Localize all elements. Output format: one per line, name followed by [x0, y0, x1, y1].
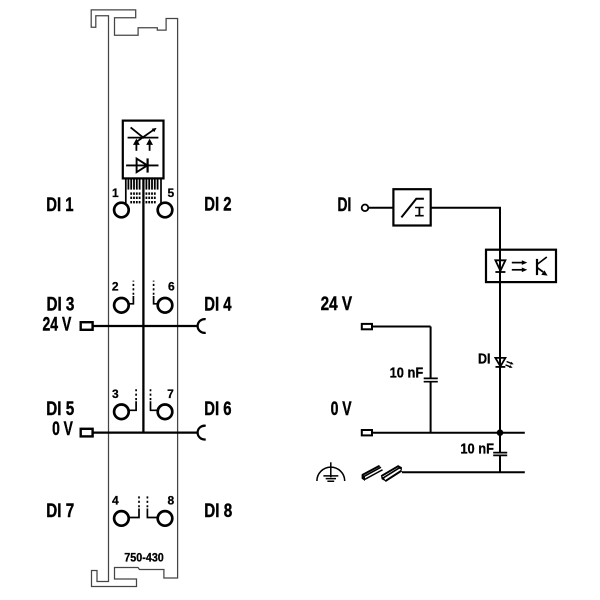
svg-text:DI 2: DI 2 [204, 195, 231, 216]
svg-text:8: 8 [167, 494, 174, 508]
svg-text:DI 5: DI 5 [46, 399, 74, 420]
svg-text:10 nF: 10 nF [460, 440, 494, 457]
svg-text:DI 7: DI 7 [46, 501, 74, 522]
svg-text:4: 4 [112, 494, 119, 508]
svg-text:3: 3 [112, 387, 119, 401]
svg-text:DI 1: DI 1 [46, 195, 74, 216]
svg-text:6: 6 [168, 280, 175, 294]
svg-text:DI: DI [338, 195, 352, 216]
svg-text:24 V: 24 V [43, 315, 72, 336]
svg-text:DI 6: DI 6 [204, 399, 231, 420]
svg-text:DI 4: DI 4 [204, 295, 232, 316]
svg-text:2: 2 [112, 280, 119, 294]
svg-text:24 V: 24 V [321, 294, 353, 315]
svg-text:5: 5 [167, 186, 174, 200]
svg-text:7: 7 [167, 387, 174, 401]
svg-text:1: 1 [112, 186, 119, 200]
svg-text:750-430: 750-430 [124, 551, 164, 565]
svg-text:DI: DI [478, 351, 491, 368]
svg-text:10 nF: 10 nF [390, 364, 424, 381]
svg-text:0 V: 0 V [331, 399, 352, 420]
svg-text:DI 3: DI 3 [47, 295, 75, 316]
svg-text:0 V: 0 V [52, 419, 73, 440]
svg-text:DI 8: DI 8 [204, 501, 232, 522]
